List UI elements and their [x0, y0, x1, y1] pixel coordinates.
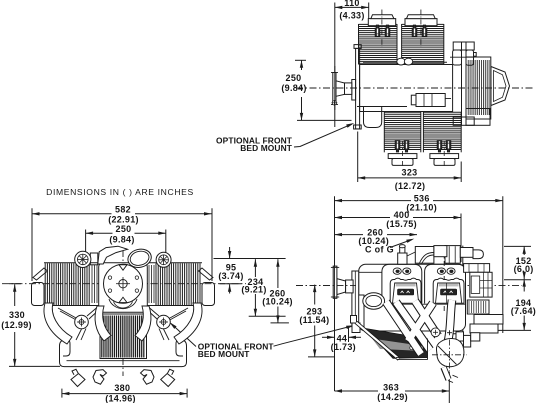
svg-text:(11.54): (11.54) [299, 315, 329, 325]
svg-text:(14.96): (14.96) [105, 393, 136, 403]
svg-text:(21.10): (21.10) [406, 202, 437, 212]
svg-text:(7.64): (7.64) [511, 306, 536, 316]
svg-text:(9.84): (9.84) [109, 235, 134, 245]
svg-text:(22.91): (22.91) [108, 214, 139, 224]
svg-text:(14.29): (14.29) [377, 392, 408, 402]
svg-text:DIMENSIONS IN ( ) ARE INC: DIMENSIONS IN ( ) ARE INCHES [46, 187, 194, 197]
svg-text:(4.33): (4.33) [339, 10, 364, 20]
svg-text:323: 323 [402, 167, 418, 177]
svg-text:380: 380 [114, 383, 130, 393]
svg-text:C of G: C of G [365, 245, 394, 255]
svg-text:BED MOUNT: BED MOUNT [240, 143, 293, 153]
svg-text:250: 250 [116, 224, 132, 234]
svg-text:(9.21): (9.21) [241, 284, 266, 294]
svg-text:(15.75): (15.75) [386, 219, 417, 229]
svg-text:(12.99): (12.99) [1, 320, 32, 330]
svg-text:363: 363 [383, 382, 399, 392]
svg-text:582: 582 [115, 204, 131, 214]
svg-text:(1.73): (1.73) [331, 342, 356, 352]
svg-text:(3.74): (3.74) [218, 271, 243, 281]
svg-text:330: 330 [9, 310, 25, 320]
svg-text:BED MOUNT: BED MOUNT [198, 349, 251, 359]
svg-text:(12.72): (12.72) [395, 181, 426, 191]
svg-text:(10.24): (10.24) [262, 297, 293, 307]
svg-text:250: 250 [286, 73, 302, 83]
